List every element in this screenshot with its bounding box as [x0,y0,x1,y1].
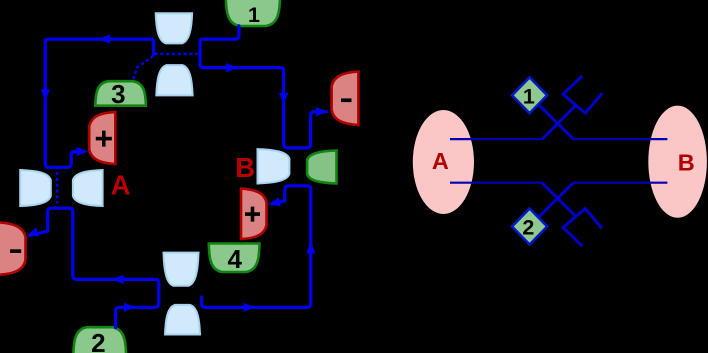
beam splitter BS3 bottom, upper cup [164,253,199,286]
top crossing diagonal to fork [542,105,576,139]
photon line top left [450,138,542,140]
wire from BS1 to detector plus left [45,39,153,167]
svg-text:3: 3 [111,79,125,109]
detector diamond 2 [512,209,547,245]
photon line bottom left [450,182,542,184]
beam splitter BS1 dashed interface [155,53,198,56]
svg-text:A: A [111,170,131,201]
arrow right on BS3 output wire [244,303,256,312]
beam splitter BS2 left, left cup [20,170,51,206]
bottom fork branch 2 [576,209,602,229]
wire from source 1 to detector minus top [200,26,326,148]
svg-text:A: A [432,148,449,174]
svg-text:B: B [678,149,695,175]
source 4 [209,244,260,273]
arrow right into detector minus top [316,107,328,116]
bottom fork branch 1 [563,217,582,246]
photon line bottom right [573,182,667,184]
beam splitter BS4 at B, left cup [258,149,290,183]
svg-text:2: 2 [91,328,105,353]
source 1 [226,0,280,26]
arrow right on source 1 wire [226,63,238,72]
arrow down on wire to BS4 U-turn [279,93,288,105]
arrow left on top wire [99,35,111,44]
arrow right on source 2 wire [124,303,136,312]
atom B ellipse [648,106,707,218]
arrow left on return wire [112,275,124,284]
beam splitter BS1 top, lower cup [156,65,192,95]
detector plus at B [241,189,267,240]
svg-text:1: 1 [248,3,260,27]
arrow into detector plus at B [267,197,280,209]
source 3 [95,81,146,106]
svg-text:1: 1 [523,84,535,108]
detector plus left [89,112,115,164]
arrow up on wire to BS4 [306,242,315,254]
detector diamond 1 [512,77,547,113]
bottom crossing diagonal to fork [542,183,576,217]
detector minus top right [332,72,359,126]
photon line top right [573,138,667,140]
svg-text:4: 4 [227,244,242,274]
wire from source 2 to detector minus left [30,208,159,328]
beam splitter BS1 top, upper cup [156,13,192,43]
top crossing diagonal from diamond 1 [538,104,573,139]
svg-text:2: 2 [522,215,534,239]
wire from BS3 to detector plus at B [202,186,311,308]
top fork branch 2 [576,93,602,113]
arrow right into detector plus left [77,147,89,156]
dashed vacuum port to source 3 [133,56,153,80]
beam splitter BS2 dashed interface [56,172,59,204]
top fork branch 1 [563,76,582,105]
beam splitter BS2 left, right cup [73,170,103,206]
detector minus left [0,222,26,274]
green absorber cup at BS4 [307,151,336,184]
beam splitter BS3 bottom, lower cup [165,305,200,335]
atom A ellipse [413,110,474,214]
svg-text:B: B [235,152,255,183]
bottom crossing diagonal from diamond 2 [538,183,573,218]
source 2 [73,327,126,353]
arrow down on left wire [41,89,50,101]
arrow into detector minus left [25,228,39,240]
